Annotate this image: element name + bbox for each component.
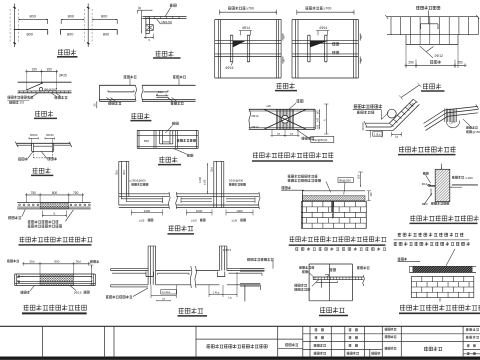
- svg-text:≥700: ≥700: [324, 7, 332, 11]
- svg-text:≥2h: ≥2h: [266, 104, 271, 108]
- svg-text:800: 800: [52, 191, 58, 195]
- svg-text:250: 250: [457, 61, 463, 65]
- svg-text:30d: 30d: [76, 259, 81, 263]
- svg-text:≥1/5: ≥1/5: [203, 179, 207, 185]
- svg-text:h/3: h/3: [317, 124, 320, 128]
- svg-text:La: La: [290, 132, 294, 136]
- svg-text:1.4La: 1.4La: [213, 291, 220, 295]
- svg-text:@150: @150: [472, 130, 480, 134]
- svg-text:Φ12@50(3): Φ12@50(3): [312, 138, 327, 142]
- svg-text:1000: 1000: [196, 209, 203, 213]
- svg-text:800: 800: [30, 15, 36, 19]
- svg-text:Φ20: Φ20: [422, 202, 428, 206]
- svg-text:2Φ16@600: 2Φ16@600: [229, 178, 244, 182]
- svg-text:4Φ14: 4Φ14: [242, 26, 250, 30]
- svg-text:800: 800: [103, 33, 109, 37]
- svg-text:h/3: h/3: [317, 110, 320, 114]
- svg-text:Φ6@200: Φ6@200: [44, 88, 57, 92]
- svg-text:4Φ14: 4Φ14: [319, 26, 327, 30]
- svg-text:h/3: h/3: [317, 117, 320, 121]
- svg-text:35d: 35d: [122, 170, 126, 175]
- svg-text:≥1.2La: ≥1.2La: [162, 290, 171, 294]
- svg-text:750: 750: [31, 191, 37, 195]
- svg-text:l1: l1: [53, 211, 56, 215]
- svg-text:800: 800: [27, 33, 33, 37]
- svg-text:La: La: [277, 132, 281, 136]
- svg-text:35d: 35d: [115, 170, 119, 175]
- svg-text:800: 800: [101, 15, 107, 19]
- svg-text:La: La: [395, 135, 399, 139]
- svg-text:50150: 50150: [30, 133, 38, 137]
- svg-text:50: 50: [359, 35, 363, 38]
- svg-text:2Φ14: 2Φ14: [251, 114, 259, 118]
- svg-text:2-Φ5.5: 2-Φ5.5: [223, 248, 232, 252]
- svg-text:≥1/5: ≥1/5: [139, 218, 145, 222]
- svg-text:250: 250: [408, 61, 414, 65]
- svg-text:2Φ14: 2Φ14: [251, 125, 259, 129]
- svg-text:Φ12: Φ12: [422, 182, 428, 186]
- svg-text:30d: 30d: [29, 259, 34, 263]
- svg-text:2Φ16: 2Φ16: [74, 291, 82, 295]
- svg-text:250: 250: [356, 174, 360, 179]
- svg-text:≥1/5: ≥1/5: [191, 218, 197, 222]
- svg-text:750: 750: [73, 191, 79, 195]
- svg-text:50: 50: [282, 35, 286, 38]
- svg-text:6Φ16: 6Φ16: [226, 66, 234, 70]
- svg-text:120: 120: [370, 192, 373, 197]
- svg-text:La: La: [229, 296, 232, 300]
- svg-text:Φ6@200: Φ6@200: [339, 179, 351, 183]
- svg-text:50: 50: [359, 58, 363, 61]
- svg-text:35d: 35d: [209, 167, 213, 172]
- svg-text:la: la: [138, 6, 141, 10]
- svg-text:800: 800: [54, 259, 59, 263]
- svg-text:La: La: [162, 296, 165, 300]
- svg-text:15d: 15d: [158, 90, 163, 94]
- svg-text:≥1/5: ≥1/5: [232, 218, 238, 222]
- svg-text:50: 50: [282, 58, 286, 61]
- svg-text:3Φ25: 3Φ25: [59, 73, 67, 77]
- svg-text:1000: 1000: [144, 209, 151, 213]
- svg-text:2Φ16@600: 2Φ16@600: [131, 178, 146, 182]
- svg-text:50150: 50150: [46, 133, 54, 137]
- svg-text:1200: 1200: [198, 177, 202, 183]
- svg-text:800: 800: [68, 15, 74, 19]
- svg-text:1000: 1000: [236, 209, 243, 213]
- svg-text:1/3: 1/3: [19, 101, 24, 105]
- svg-text:150: 150: [47, 67, 53, 71]
- svg-text:-1.200: -1.200: [464, 176, 473, 180]
- svg-text:1.0La: 1.0La: [374, 132, 381, 136]
- svg-text:800: 800: [67, 33, 73, 37]
- svg-text:650: 650: [144, 139, 149, 143]
- svg-text:≥700: ≥700: [246, 7, 254, 11]
- svg-text:2Φ12: 2Φ12: [435, 54, 443, 58]
- svg-text:150: 150: [32, 67, 38, 71]
